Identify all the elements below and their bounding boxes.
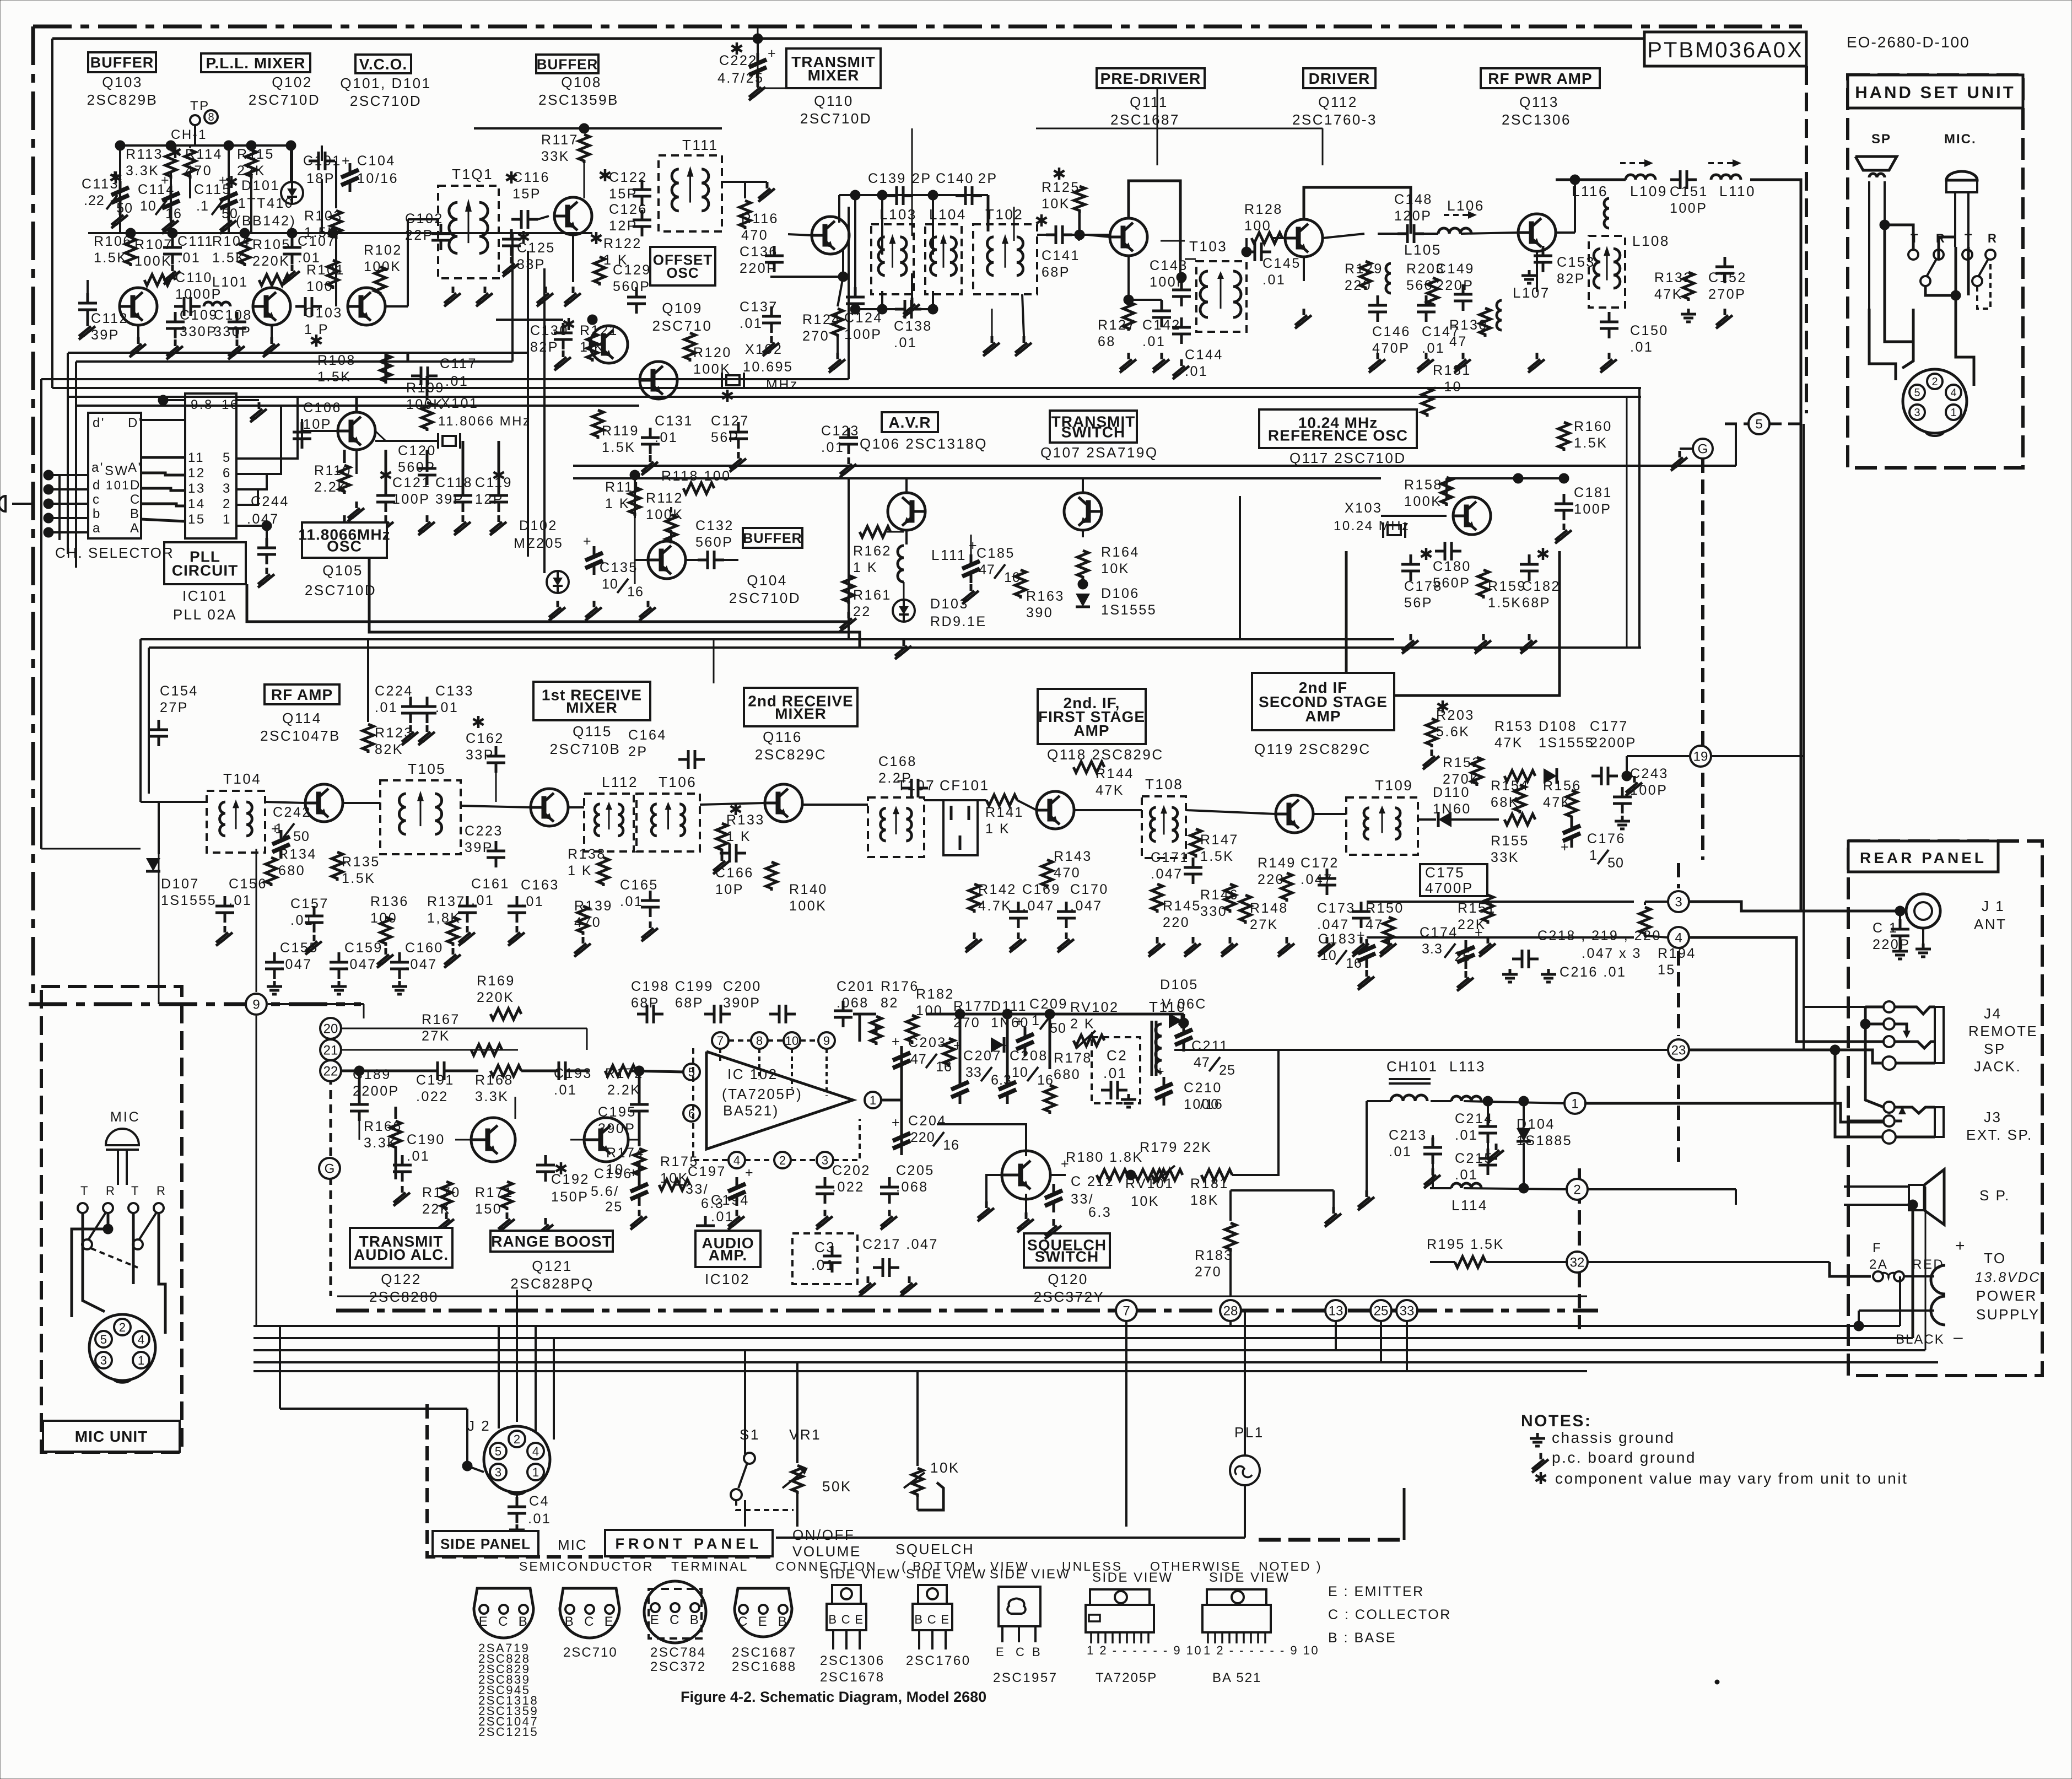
- svg-text:R144: R144: [1096, 766, 1134, 781]
- svg-text:B: B: [828, 1613, 838, 1626]
- svg-text:R134: R134: [278, 847, 317, 862]
- svg-text:C194: C194: [711, 1193, 749, 1208]
- jack J3: [1884, 1102, 1895, 1113]
- svg-text:PLL 02A: PLL 02A: [173, 606, 237, 623]
- block label 2nd RECEIVE MIXER: [744, 688, 857, 726]
- wire left v2: [51, 39, 53, 388]
- wire G stub: [1680, 448, 1693, 450]
- wire q105 links: [302, 430, 338, 432]
- svg-text:2: 2: [514, 1432, 520, 1446]
- block label MIC UNIT: [43, 1421, 180, 1452]
- svg-text:SWITCH: SWITCH: [1035, 1248, 1099, 1265]
- svg-text:8: 8: [756, 1034, 763, 1048]
- note chassis ground: [1536, 1433, 1539, 1438]
- node ic pin4: [729, 1152, 745, 1168]
- node 21: [320, 1039, 341, 1060]
- svg-text:2SC1687: 2SC1687: [732, 1645, 797, 1660]
- svg-text:.01: .01: [1455, 1128, 1478, 1143]
- svg-text:2SC1359B: 2SC1359B: [538, 91, 619, 108]
- svg-text:C4: C4: [529, 1494, 549, 1509]
- block label PRE-DRIVER Q111: [1097, 68, 1205, 88]
- svg-text:a: a: [93, 521, 101, 536]
- svg-text:D103: D103: [930, 596, 969, 612]
- wire audio borders: [337, 1296, 1587, 1297]
- svg-text:R155: R155: [1491, 833, 1529, 849]
- svg-text:C: C: [927, 1613, 937, 1626]
- svg-text:E: E: [479, 1614, 489, 1629]
- wire PA out: [1556, 231, 1575, 234]
- svg-text:S1: S1: [740, 1426, 760, 1443]
- svg-text:T107: T107: [897, 777, 935, 794]
- svg-text:.1: .1: [196, 198, 209, 214]
- svg-text:.047: .047: [405, 957, 438, 972]
- svg-text:.01: .01: [711, 1209, 734, 1225]
- svg-text:C117: C117: [440, 356, 477, 371]
- svg-text:33: 33: [965, 1065, 982, 1080]
- wire 2 right: [1588, 1188, 1736, 1190]
- svg-text:C119: C119: [475, 475, 512, 490]
- svg-text:150P: 150P: [551, 1189, 589, 1205]
- svg-text:AUDIO ALC.: AUDIO ALC.: [354, 1246, 449, 1263]
- svg-text:AMP.: AMP.: [709, 1247, 747, 1264]
- wire bus drop vr1: [796, 1362, 798, 1463]
- svg-text:V 06C: V 06C: [1162, 996, 1207, 1012]
- svg-text:OSC: OSC: [327, 538, 362, 555]
- svg-text:2SC1957: 2SC1957: [993, 1670, 1058, 1685]
- svg-text:E: E: [996, 1645, 1005, 1659]
- svg-text:C141: C141: [1042, 248, 1080, 263]
- wire bus drop j2b: [516, 1290, 518, 1422]
- svg-text:T105: T105: [408, 761, 446, 777]
- svg-text:2SC1760-3: 2SC1760-3: [1292, 111, 1377, 128]
- wire 1 right: [1586, 1103, 1885, 1122]
- wire offset rail: [496, 319, 563, 321]
- svg-text:CIRCUIT: CIRCUIT: [172, 562, 239, 579]
- wire C222 stub: [757, 39, 759, 54]
- block label BUFFER Q104: [743, 528, 802, 548]
- svg-text:Q121: Q121: [532, 1258, 573, 1274]
- svg-text:Q107 2SA719Q: Q107 2SA719Q: [1040, 444, 1158, 461]
- svg-text:C155: C155: [280, 940, 319, 956]
- svg-text:9: 9: [823, 1034, 830, 1048]
- svg-text:.047 x 3: .047 x 3: [1582, 946, 1642, 961]
- svg-text:R117: R117: [541, 132, 579, 148]
- svg-text:.01: .01: [528, 1511, 551, 1527]
- svg-text:22: 22: [853, 604, 871, 619]
- svg-text:.022: .022: [416, 1089, 449, 1104]
- wire R117 top: [474, 127, 722, 130]
- svg-text:R108: R108: [317, 353, 356, 368]
- svg-text:10: 10: [785, 1034, 798, 1048]
- node 32 circle: [1567, 1252, 1588, 1273]
- svg-text:14: 14: [188, 497, 206, 511]
- wire squelch net: [986, 1175, 1002, 1201]
- wire rf verticals: [119, 182, 121, 233]
- svg-text:680: 680: [278, 863, 305, 878]
- svg-text:+: +: [583, 533, 592, 549]
- svg-text:L113: L113: [1449, 1058, 1486, 1075]
- svg-text:68P: 68P: [675, 995, 704, 1011]
- svg-text:C: C: [1016, 1645, 1026, 1659]
- svg-text:C120: C120: [398, 443, 436, 459]
- capacitor C119: [498, 469, 500, 481]
- svg-text:16: 16: [943, 1138, 959, 1153]
- svg-text:3: 3: [495, 1465, 501, 1479]
- svg-text:330: 330: [1200, 904, 1227, 919]
- svg-text:.01: .01: [375, 700, 398, 715]
- svg-text:REFERENCE OSC: REFERENCE OSC: [1268, 427, 1408, 444]
- capacitor C162: [477, 716, 480, 728]
- svg-text:3.3K: 3.3K: [475, 1089, 509, 1104]
- svg-text:Q111: Q111: [1130, 94, 1168, 110]
- svg-text:220K: 220K: [477, 990, 514, 1005]
- power minus connector: [1931, 1296, 1945, 1325]
- svg-text:SIDE VIEW: SIDE VIEW: [990, 1567, 1071, 1582]
- svg-text:2SC710D: 2SC710D: [729, 590, 801, 606]
- svg-text:C161: C161: [471, 876, 510, 892]
- wire row2 rail: [88, 232, 592, 234]
- svg-text:R131: R131: [1433, 363, 1471, 378]
- svg-text:47: 47: [1449, 334, 1467, 349]
- svg-text:SIDE VIEW: SIDE VIEW: [906, 1567, 987, 1582]
- svg-text:b: b: [93, 506, 101, 521]
- ground q104: [557, 601, 559, 607]
- node ic pin7: [712, 1032, 729, 1049]
- node 4 circle: [1668, 927, 1689, 948]
- svg-text:SIDE VIEW: SIDE VIEW: [1209, 1570, 1290, 1585]
- svg-text:.01: .01: [1630, 339, 1653, 355]
- wire rx left v: [139, 639, 142, 802]
- svg-text:8: 8: [208, 111, 214, 123]
- svg-text:C: C: [841, 1613, 851, 1626]
- svg-text:390P: 390P: [598, 1121, 635, 1136]
- svg-text:C104: C104: [357, 153, 396, 169]
- svg-text:BLACK: BLACK: [1896, 1332, 1945, 1347]
- svg-text:R161: R161: [853, 587, 892, 603]
- wire bus drop j2c: [535, 1326, 537, 1433]
- wire 4 to J4: [1690, 937, 1885, 1042]
- svg-text:82: 82: [881, 995, 899, 1011]
- svg-text:39P: 39P: [435, 492, 464, 507]
- svg-text:REAR PANEL: REAR PANEL: [1860, 849, 1987, 866]
- wire tx top link: [757, 26, 759, 39]
- wire drop 7: [1125, 1322, 1127, 1527]
- svg-text:.047: .047: [280, 957, 312, 972]
- svg-text:AMP: AMP: [1073, 722, 1109, 739]
- svg-text:1.5K: 1.5K: [317, 369, 351, 385]
- svg-text:100P: 100P: [1630, 783, 1668, 798]
- svg-text:.01: .01: [821, 440, 844, 455]
- svg-text:C242: C242: [273, 805, 311, 820]
- capacitor C178: [1425, 548, 1428, 560]
- svg-text:BUFFER: BUFFER: [90, 55, 154, 71]
- svg-text:4: 4: [532, 1444, 539, 1458]
- svg-text:R122: R122: [603, 236, 642, 251]
- zener D103: [893, 600, 915, 622]
- capacitor C192: [560, 1162, 563, 1174]
- node 8: [204, 110, 218, 123]
- svg-text:470: 470: [1054, 865, 1081, 881]
- svg-text:C135: C135: [600, 560, 638, 575]
- svg-text:C180: C180: [1433, 559, 1471, 574]
- svg-text:SIDE PANEL: SIDE PANEL: [440, 1535, 531, 1552]
- svg-text:+: +: [1156, 1064, 1165, 1079]
- svg-text:82K: 82K: [375, 742, 403, 757]
- svg-text:1: 1: [138, 1354, 144, 1367]
- transistor Q113: [1518, 214, 1556, 251]
- svg-text:C177: C177: [1590, 719, 1628, 734]
- svg-text:C200: C200: [723, 979, 762, 994]
- svg-text:C164: C164: [628, 727, 667, 743]
- wire q106 top feed: [905, 478, 908, 493]
- svg-text:MIC: MIC: [558, 1537, 587, 1553]
- svg-text:270P: 270P: [1708, 287, 1746, 302]
- wire 3 to J1: [1690, 902, 1900, 911]
- wire mic sw dash: [91, 1248, 138, 1268]
- wire ptbm right edge dash: [1805, 66, 1808, 413]
- speaker hs: [1855, 157, 1897, 170]
- svg-text:R137: R137: [427, 894, 466, 909]
- svg-text:11: 11: [188, 450, 204, 465]
- block label TRANSMIT SWITCH: [1050, 411, 1137, 443]
- svg-text:C192: C192: [551, 1172, 590, 1187]
- svg-text:27P: 27P: [160, 700, 188, 715]
- svg-text:47K: 47K: [1096, 783, 1124, 798]
- block label P.L.L. MIXER Q102: [201, 53, 310, 72]
- svg-text:C146: C146: [1372, 324, 1411, 339]
- node 28 circle: [1220, 1300, 1241, 1321]
- svg-text:100K: 100K: [134, 254, 172, 269]
- capacitor C122: [604, 169, 607, 181]
- svg-text:68: 68: [1098, 334, 1116, 349]
- svg-text:POWER: POWER: [1976, 1287, 2037, 1304]
- svg-text:C175: C175: [1425, 864, 1465, 881]
- svg-text:+: +: [161, 172, 170, 188]
- svg-text:1.5K: 1.5K: [1574, 435, 1607, 451]
- svg-text:Q119 2SC829C: Q119 2SC829C: [1254, 741, 1371, 757]
- node 3 circle: [1668, 891, 1689, 912]
- wire q104 links: [634, 475, 636, 518]
- svg-text:33K: 33K: [1491, 850, 1519, 865]
- svg-text:RED: RED: [1912, 1257, 1944, 1272]
- wire mid v3: [543, 268, 546, 573]
- svg-text:32: 32: [1570, 1255, 1585, 1270]
- node 25 circle: [1370, 1300, 1391, 1321]
- svg-text:1: 1: [870, 1093, 876, 1107]
- svg-text:10: 10: [602, 576, 618, 592]
- wire left v1: [40, 379, 42, 849]
- wire ref osc: [1445, 478, 1448, 499]
- hand set unit title: [1848, 75, 2023, 108]
- svg-text:1: 1: [1950, 407, 1956, 419]
- svg-text:T: T: [1965, 231, 1973, 245]
- svg-text:R153: R153: [1494, 719, 1533, 734]
- svg-text:C199: C199: [675, 979, 714, 994]
- svg-text:Q109: Q109: [662, 300, 703, 316]
- svg-text:C182: C182: [1522, 579, 1561, 594]
- svg-text:2SC1688: 2SC1688: [732, 1659, 797, 1674]
- svg-text:19: 19: [1693, 750, 1708, 764]
- svg-text:68P: 68P: [1522, 595, 1551, 611]
- svg-text:2P: 2P: [628, 744, 648, 759]
- wire minus feed: [1859, 1309, 1934, 1312]
- transistor Q122: [471, 1118, 515, 1162]
- svg-text:2SC710D: 2SC710D: [800, 110, 872, 127]
- package 2SC1687: [735, 1588, 792, 1637]
- svg-text:MIXER: MIXER: [775, 705, 827, 723]
- wire Q108 down: [572, 235, 574, 282]
- svg-text:L101: L101: [212, 274, 249, 290]
- svg-text:21: 21: [323, 1043, 338, 1058]
- svg-text:Figure 4-2. Schematic Diagram: Figure 4-2. Schematic Diagram, Model 268…: [681, 1689, 986, 1705]
- connector mic plug left: [0, 496, 6, 511]
- svg-text:C110: C110: [175, 270, 213, 285]
- wire bus audio1: [253, 1325, 1900, 1327]
- svg-text:39P: 39P: [91, 327, 120, 343]
- wire PL1: [1244, 1311, 1246, 1455]
- svg-text:R164: R164: [1101, 545, 1140, 560]
- svg-text:1.5K: 1.5K: [1488, 595, 1521, 611]
- svg-text:C190: C190: [407, 1132, 445, 1147]
- transistor Q117: [1453, 497, 1491, 535]
- svg-text:3: 3: [100, 1354, 107, 1367]
- svg-text:100K: 100K: [1404, 494, 1442, 509]
- svg-text:28: 28: [1223, 1304, 1238, 1319]
- svg-text:J3: J3: [1984, 1109, 2001, 1125]
- svg-text:+: +: [1561, 839, 1570, 855]
- svg-text:R159: R159: [1488, 579, 1526, 594]
- svg-text:2SC1306: 2SC1306: [1502, 111, 1571, 128]
- node 13 circle: [1325, 1300, 1346, 1321]
- block label SIDE PANEL: [433, 1531, 538, 1556]
- wire pin1 out: [236, 525, 267, 527]
- capacitor C222: [736, 42, 738, 55]
- wire T111 out: [722, 181, 745, 183]
- svg-text:C181: C181: [1574, 485, 1612, 500]
- svg-text:B: B: [690, 1613, 700, 1627]
- svg-text:100K: 100K: [789, 898, 827, 914]
- svg-text:220: 220: [1163, 915, 1190, 930]
- transistor Q109b: [640, 362, 677, 399]
- svg-text:1 K: 1 K: [568, 863, 592, 878]
- node 23 circle: [1668, 1039, 1689, 1060]
- svg-text:Q113: Q113: [1519, 94, 1559, 110]
- svg-text:+: +: [1357, 928, 1366, 943]
- svg-text:L116: L116: [1572, 183, 1608, 200]
- svg-text:C197: C197: [688, 1164, 726, 1179]
- svg-text:B: B: [914, 1613, 924, 1626]
- svg-text:D105: D105: [1160, 977, 1199, 993]
- node 19: [1690, 746, 1711, 767]
- svg-text:C107: C107: [298, 234, 336, 249]
- wire main board top border: [33, 25, 1802, 29]
- svg-text:.01: .01: [177, 250, 201, 266]
- node ic pin6: [683, 1105, 700, 1122]
- svg-text:.047: .047: [1151, 866, 1183, 882]
- svg-text:D107: D107: [161, 876, 199, 892]
- svg-text:16: 16: [627, 584, 644, 600]
- inductor L111: [898, 546, 904, 582]
- svg-text:5: 5: [1755, 417, 1762, 432]
- svg-text:/16: /16: [1200, 1097, 1223, 1112]
- svg-text:7: 7: [717, 1034, 724, 1048]
- svg-text:2SC710B: 2SC710B: [550, 741, 621, 757]
- svg-text:R128: R128: [1244, 202, 1283, 217]
- svg-text:J4: J4: [1984, 1005, 2001, 1022]
- mic unit border: [41, 986, 182, 1452]
- svg-text:TERMINAL: TERMINAL: [671, 1559, 748, 1573]
- svg-text:+: +: [629, 1165, 639, 1180]
- svg-text:18P: 18P: [306, 171, 335, 186]
- block label AUDIO AMP: [695, 1231, 760, 1267]
- speaker SP rear: [1909, 1185, 1924, 1210]
- svg-text:D110: D110: [1433, 785, 1470, 800]
- svg-text:B: B: [130, 506, 141, 521]
- svg-text:390: 390: [1026, 605, 1053, 621]
- svg-text:Q122: Q122: [381, 1271, 422, 1287]
- svg-text:5: 5: [100, 1333, 107, 1346]
- capacitor C127: [726, 390, 729, 402]
- svg-text:5: 5: [223, 450, 231, 465]
- svg-text:1 K: 1 K: [853, 560, 878, 575]
- svg-text:R160: R160: [1574, 419, 1612, 434]
- ground T101: [452, 287, 455, 293]
- svg-text:4: 4: [138, 1333, 144, 1346]
- pot SQUELCH: [916, 1463, 919, 1466]
- svg-text:EXT. SP.: EXT. SP.: [1966, 1126, 2033, 1143]
- wire TP lead: [194, 125, 196, 145]
- connector mic unit plug: [89, 1314, 155, 1381]
- junction dots top rail: [115, 141, 125, 150]
- svg-text:2SC1760: 2SC1760: [906, 1653, 971, 1668]
- wire bus audio5: [253, 1370, 1587, 1372]
- svg-text:HAND SET UNIT: HAND SET UNIT: [1855, 83, 2015, 102]
- svg-text:R178: R178: [1054, 1050, 1092, 1066]
- svg-text:G: G: [1698, 442, 1708, 457]
- wire bus audio2: [253, 1337, 1913, 1339]
- svg-text:+: +: [110, 167, 120, 182]
- svg-text:R105: R105: [252, 237, 291, 252]
- svg-text:C: C: [130, 492, 141, 507]
- diode D106: [1076, 594, 1090, 607]
- svg-text:2: 2: [779, 1153, 786, 1167]
- svg-text:SP: SP: [1871, 132, 1891, 147]
- wire top rail: [120, 144, 292, 147]
- svg-text:R107: R107: [134, 237, 173, 252]
- capacitor C116: [510, 171, 513, 184]
- svg-text:NOTES:: NOTES:: [1521, 1412, 1591, 1430]
- svg-text:T102: T102: [985, 206, 1023, 223]
- svg-text:220K: 220K: [252, 254, 290, 269]
- svg-text:13: 13: [188, 481, 206, 496]
- wire pll step A: [247, 584, 850, 622]
- wire rx board top2: [149, 646, 1641, 649]
- svg-text:C170: C170: [1070, 882, 1109, 897]
- svg-text:S P.: S P.: [1979, 1187, 2010, 1204]
- wire pa feed: [1323, 234, 1364, 238]
- wire plus drop: [1899, 1276, 1901, 1326]
- svg-text:T111: T111: [682, 137, 718, 153]
- svg-text:C103: C103: [304, 305, 343, 321]
- svg-text:4: 4: [1675, 931, 1682, 946]
- capacitor C113: [115, 171, 117, 184]
- svg-text:100: 100: [1244, 218, 1271, 234]
- svg-text:R176: R176: [881, 979, 919, 994]
- wire q113 stub: [1536, 251, 1538, 292]
- capacitor C130: [568, 318, 570, 330]
- svg-text:RD9.1E: RD9.1E: [930, 614, 987, 629]
- wire bus audio3: [253, 1349, 1925, 1351]
